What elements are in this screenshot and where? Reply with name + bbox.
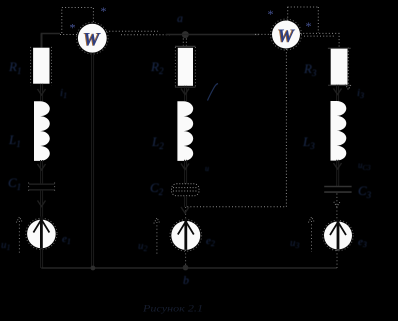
bottom rail <box>41 267 337 269</box>
inductor L1 <box>34 101 50 161</box>
label i2 (script) <box>208 84 219 101</box>
dotted wires W2 right to branch3 <box>300 33 339 48</box>
current arrow i3 dotted head <box>345 84 351 90</box>
svg-text:*: * <box>306 19 312 33</box>
capacitor C1 plates (faint) <box>29 184 55 190</box>
capacitor C2 (dotted block) <box>172 184 200 196</box>
wire L1 to C1 <box>41 160 43 184</box>
svg-text:a: a <box>177 11 183 25</box>
EMF annotation arrow e3 (dotted) <box>311 221 313 252</box>
capacitor C3 plates <box>324 187 351 193</box>
chevron above e2 <box>181 207 189 213</box>
wattmeter W2 voltage box dotted <box>288 7 319 33</box>
current chevron below R1 <box>38 89 46 95</box>
wire dotted W1 left lead <box>60 34 78 36</box>
chevron below L3 <box>334 163 342 169</box>
wire R2 to L2 <box>185 86 187 101</box>
wire branch1 vertical top <box>41 34 43 48</box>
source e1 <box>26 218 57 249</box>
branch2: R2 terminal bar top <box>175 45 195 47</box>
dotted wire into W2 left <box>255 33 272 35</box>
resistor R2 <box>178 48 193 86</box>
wattmeter W1 voltage box dotted <box>62 8 94 34</box>
dotted line W1 to node a (lower) <box>121 34 172 36</box>
inductor L3 <box>331 101 347 161</box>
svg-text:*: * <box>101 4 107 18</box>
inductor L2 <box>177 101 193 161</box>
wattmeter W2 <box>271 19 302 50</box>
node b blob <box>183 265 189 271</box>
wire L3 to C3 <box>337 160 339 186</box>
wire top-left branch1 corner horizontal <box>41 33 60 35</box>
wattmeter W1 <box>77 22 109 54</box>
wire C1 to e1 <box>41 190 43 220</box>
resistor R1 dotted halo <box>31 47 52 86</box>
source e2 <box>170 220 202 252</box>
chevron below L2 <box>181 164 189 170</box>
svg-text:*: * <box>70 21 76 35</box>
chevron below R2 <box>181 89 189 95</box>
wire R1 to L1 <box>41 84 43 101</box>
node a junction blob <box>182 31 189 38</box>
dotted W2 voltage lead down and left to branch2 <box>187 49 286 207</box>
wire top node a to W2 <box>166 34 259 36</box>
chevron below L1 <box>38 164 46 170</box>
wire e1 to rail <box>41 248 43 268</box>
resistor R3 <box>331 49 348 85</box>
svg-text:W: W <box>83 30 101 50</box>
branch3: R3 terminal bar top <box>328 47 351 49</box>
wire R3 to L3 <box>337 85 339 101</box>
rail junction at W1 lead <box>91 266 96 271</box>
EMF annotation arrow e1 (dotted) <box>18 221 20 255</box>
wire L2 to C2 <box>185 160 187 184</box>
source e3 <box>323 220 353 250</box>
svg-text:W: W <box>278 27 296 47</box>
wire W1 voltage lead down to rail <box>92 53 94 268</box>
resistor R2 dotted halo <box>175 47 195 87</box>
wire C2 to e2 <box>185 196 187 207</box>
chevron below R3 <box>334 89 342 95</box>
chevron above e1 <box>38 201 46 207</box>
dotted wire C3 to e3 with dotted chevron <box>336 194 338 221</box>
dotted wire e3 to rail <box>336 250 338 268</box>
svg-text:u: u <box>205 164 209 173</box>
svg-text:Рисунок 2.1: Рисунок 2.1 <box>142 305 203 315</box>
svg-text:*: * <box>268 7 274 21</box>
EMF annotation arrow e2 (dotted) <box>156 222 158 254</box>
dotted line W1 to node a (upper) <box>106 30 158 32</box>
wire e2 to rail <box>185 250 187 268</box>
resistor R1 <box>33 48 49 84</box>
svg-text:b: b <box>183 273 189 287</box>
